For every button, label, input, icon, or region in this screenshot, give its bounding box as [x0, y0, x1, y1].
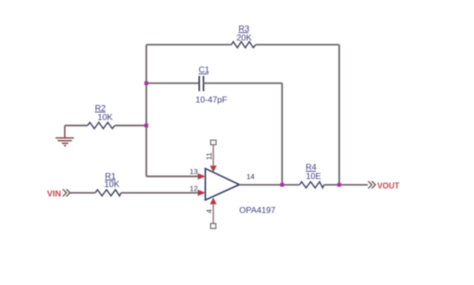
svg-text:11: 11 [205, 152, 214, 160]
svg-text:C1: C1 [199, 65, 210, 75]
label C1 [196, 65, 228, 105]
junction at inverting node / C1 branch [144, 81, 148, 85]
capacitor C1 [199, 76, 203, 91]
wire: op-amp output to R4 [239, 184, 299, 186]
ground [56, 126, 74, 146]
resistor R4 [300, 182, 325, 188]
label R4 [306, 162, 322, 181]
pin 11 arrow [210, 166, 217, 173]
svg-text:VOUT: VOUT [377, 181, 399, 190]
label R1 [104, 171, 119, 189]
svg-text:4: 4 [205, 209, 214, 213]
wire: R2 net from ground to inverting node [65, 125, 88, 127]
wire: R1 to pin 12 [121, 192, 200, 194]
label R2 [95, 103, 113, 122]
pin 4 arrow [210, 198, 217, 205]
wire: R3 right to corner [256, 44, 340, 46]
resistor R1 [95, 190, 121, 196]
svg-text:20K: 20K [237, 32, 252, 42]
pin 4 terminal square [211, 224, 216, 229]
label R3 [237, 23, 252, 42]
svg-text:12: 12 [190, 184, 198, 193]
resistor R3 [231, 42, 255, 48]
junction at output / C1 branch [280, 183, 284, 187]
svg-text:10K: 10K [104, 179, 119, 189]
wire: C1 branch vertical down to output net [281, 83, 283, 185]
svg-text:13: 13 [190, 167, 198, 176]
pin 11 stub wire [212, 145, 214, 172]
wire: C1 left wire from junction [146, 82, 199, 84]
port VIN chevrons [63, 189, 70, 196]
wire: top horizontal to R3 left [146, 44, 231, 46]
svg-text:10-47pF: 10-47pF [196, 95, 228, 105]
pin 13 arrow [198, 173, 206, 179]
port VOUT chevrons [368, 181, 375, 188]
resistor R2 [88, 122, 115, 128]
wire: R4 to VOUT port [324, 184, 368, 186]
wire: C1 right wire to corner [204, 82, 283, 84]
junction at inverting node / R2 branch [144, 124, 148, 128]
wire: VIN to R1 [70, 192, 95, 194]
pin 11 terminal square [211, 140, 216, 144]
svg-text:14: 14 [247, 172, 255, 181]
svg-text:10K: 10K [98, 112, 113, 122]
wire: right vertical from R3 down to output net [338, 45, 340, 185]
wire: feedback net vertical (inverting input node) [145, 45, 147, 177]
pin 12 arrow [198, 190, 206, 196]
wire: R2 right to junction [115, 125, 146, 127]
svg-text:OPA4197: OPA4197 [239, 205, 276, 215]
svg-text:10E: 10E [306, 171, 321, 181]
op-amp U1 triangle [205, 169, 239, 201]
wire: inverting node corner to pin 13 [146, 175, 200, 177]
svg-text:VIN: VIN [47, 188, 61, 198]
junction at output / R3 branch [337, 183, 341, 187]
pin 4 stub wire [212, 199, 214, 225]
